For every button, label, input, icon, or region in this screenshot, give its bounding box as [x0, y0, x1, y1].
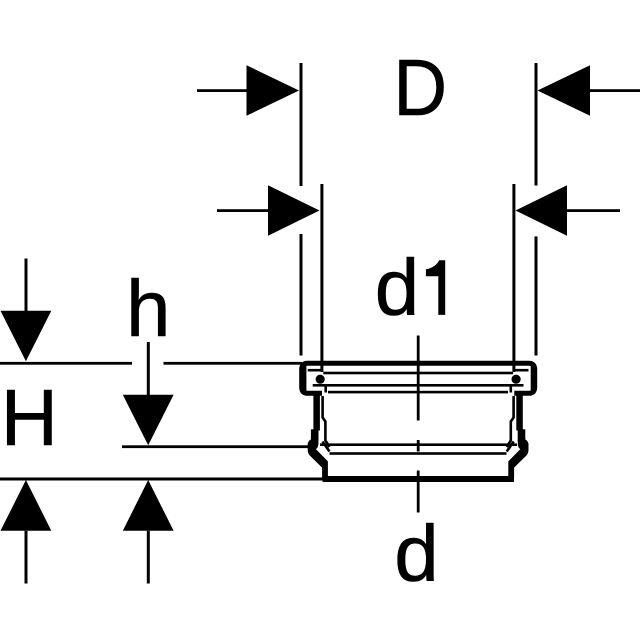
- extension line d1 right: [512, 184, 515, 372]
- svg-text:d: d: [375, 243, 420, 332]
- extension line D left: [300, 63, 303, 356]
- svg-text:D: D: [393, 43, 447, 132]
- fitting top inner edge line y=392: [328, 391, 508, 394]
- socket wall right inner line: [507, 396, 514, 452]
- flange inner tick left: [324, 385, 327, 393]
- extension line D right: [535, 63, 538, 356]
- flange inner line upper: [308, 369, 322, 372]
- flange left edge thickening: [303, 366, 306, 391]
- extension line bottom reference y=479: [0, 478, 325, 481]
- dimension arrow H top: [1, 259, 52, 362]
- gasket dot right: [511, 375, 520, 384]
- centerline: [417, 336, 420, 513]
- gasket dot left: [316, 375, 325, 384]
- socket wall right: [508, 392, 528, 478]
- fitting inner line y=453.4: [330, 452, 507, 455]
- socket wall left: [308, 392, 328, 478]
- fitting inner step line y=444.6: [320, 443, 517, 446]
- dimension arrow D left: [197, 65, 299, 116]
- socket wall left inner line: [323, 396, 330, 452]
- extension line h lower reference y=446.5: [122, 445, 308, 448]
- dimension arrow h top: [123, 342, 174, 445]
- dimension arrow H bottom: [1, 480, 52, 584]
- dimension arrow D right: [538, 65, 640, 116]
- svg-text:H: H: [1, 373, 58, 462]
- extension line top reference y=363: [0, 362, 302, 365]
- flange right edge thickening: [531, 366, 533, 391]
- flange inner tick right: [510, 385, 513, 393]
- dimension arrow d1 left: [217, 185, 320, 236]
- fitting bottom band: [323, 476, 515, 482]
- svg-text:d: d: [394, 509, 439, 598]
- fitting flange outline: [302, 363, 535, 393]
- flange inner line lower: [313, 384, 524, 387]
- svg-text:h: h: [126, 264, 171, 353]
- extension line d1 left: [320, 184, 323, 372]
- dimension arrow h bottom: [123, 480, 174, 584]
- dimension arrow d1 right: [516, 185, 621, 236]
